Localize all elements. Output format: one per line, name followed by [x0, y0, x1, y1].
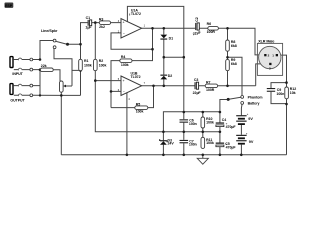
- svg-text:9V: 9V: [248, 117, 253, 121]
- svg-text:R5: R5: [136, 102, 141, 106]
- svg-text:OUTPUT: OUTPUT: [10, 98, 25, 102]
- svg-text:100k: 100k: [206, 141, 214, 145]
- svg-text:D1: D1: [169, 36, 174, 40]
- svg-text:10k: 10k: [290, 91, 296, 95]
- svg-text:100k: 100k: [136, 110, 144, 114]
- svg-text:100n: 100n: [189, 122, 197, 126]
- svg-text:100k: 100k: [99, 63, 107, 67]
- svg-text:470µF: 470µF: [226, 146, 237, 150]
- svg-text:ESP: ESP: [5, 4, 13, 8]
- svg-text:R6: R6: [207, 22, 212, 26]
- svg-text:100k: 100k: [121, 63, 129, 67]
- svg-text:6k8: 6k8: [231, 62, 237, 66]
- svg-text:C2: C2: [195, 17, 199, 22]
- svg-text:INPUT: INPUT: [12, 72, 23, 76]
- svg-text:R3: R3: [99, 18, 104, 22]
- svg-text:+: +: [123, 21, 125, 25]
- svg-text:470µF: 470µF: [226, 125, 237, 129]
- svg-text:−: −: [123, 90, 125, 94]
- svg-text:22k: 22k: [41, 64, 47, 68]
- svg-text:+: +: [123, 79, 125, 83]
- svg-text:6k8: 6k8: [231, 44, 237, 48]
- svg-text:−: −: [123, 31, 125, 35]
- svg-text:22µF: 22µF: [193, 91, 202, 95]
- svg-text:XLR Male: XLR Male: [258, 40, 274, 44]
- svg-text:D2: D2: [168, 74, 173, 78]
- svg-text:C1: C1: [86, 16, 91, 20]
- svg-text:24V: 24V: [168, 142, 175, 146]
- svg-text:Battery: Battery: [248, 101, 260, 105]
- svg-text:100R: 100R: [207, 30, 216, 34]
- svg-text:Phantom: Phantom: [248, 95, 263, 99]
- svg-text:2k2: 2k2: [99, 25, 105, 29]
- svg-text:100n: 100n: [189, 143, 197, 147]
- svg-text:9V: 9V: [249, 140, 254, 144]
- svg-text:Line/Spkr: Line/Spkr: [41, 29, 58, 33]
- svg-text:R4: R4: [121, 55, 126, 59]
- svg-text:100k: 100k: [206, 120, 214, 124]
- svg-text:C3: C3: [194, 78, 199, 82]
- svg-text:100R: 100R: [206, 88, 215, 92]
- svg-text:TL072: TL072: [131, 75, 141, 79]
- svg-text:1µF: 1µF: [85, 26, 92, 30]
- svg-text:100n: 100n: [276, 92, 284, 96]
- svg-text:100k: 100k: [84, 63, 92, 67]
- svg-text:R7: R7: [206, 80, 211, 84]
- svg-text:TL072: TL072: [131, 12, 141, 16]
